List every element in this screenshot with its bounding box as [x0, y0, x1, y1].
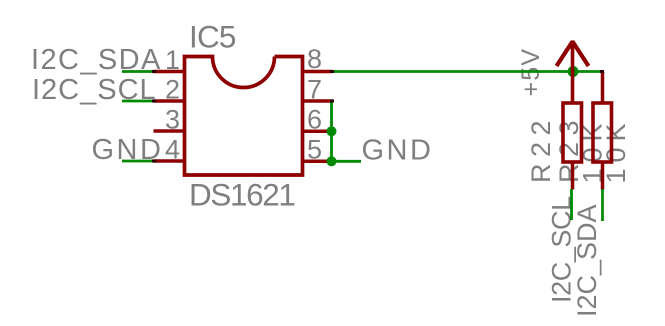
wire vertical pin7-pin6-pin5 [330, 101, 333, 161]
svg-text:R22: R22 [526, 114, 556, 183]
junction at pin 6 [327, 126, 337, 136]
label +5V (rotated) [517, 48, 545, 97]
wire GND from pin 5 [332, 160, 362, 163]
pin 5 stub [301, 160, 333, 164]
pin connection point pin 8 [330, 70, 334, 73]
lead R22 bottom [571, 164, 575, 190]
svg-text:GND: GND [362, 135, 434, 167]
lead R23 bottom [601, 164, 605, 190]
wire I2C_SDA at R23 bottom [601, 189, 604, 221]
net label I2C_SCL at R22 bottom (rotated) [547, 196, 577, 303]
lead R23 top [601, 72, 605, 102]
pin 7 stub [301, 99, 333, 103]
value 10K of R23 (rotated) [601, 117, 631, 183]
net label GND (pin 5, right) [362, 135, 434, 167]
net label I2C_SDA (pin 1) [31, 44, 162, 76]
wire GND to pin 4 [122, 160, 154, 163]
pin number 3 [165, 105, 180, 135]
pin 2 stub [154, 99, 187, 103]
svg-text:I2C_SDA: I2C_SDA [572, 204, 602, 317]
pin 4 stub [154, 159, 187, 163]
svg-text:8: 8 [307, 44, 322, 74]
label R23 (rotated) [554, 114, 584, 183]
pin 8 stub [301, 70, 333, 74]
pin 1 stub [154, 70, 187, 74]
pin number 2 [165, 75, 180, 105]
pin number 7 [307, 75, 322, 105]
wire I2C_SDA to pin 1 [122, 70, 154, 73]
wire I2C_SCL to pin 2 [122, 100, 154, 103]
IC IC5 DS1621 body outline with pin-1 notch [185, 57, 303, 176]
net label I2C_SDA at R23 bottom (rotated) [572, 204, 602, 317]
value 10K of R22 (rotated) [578, 117, 608, 183]
svg-text:R23: R23 [554, 114, 584, 183]
svg-text:10K: 10K [601, 117, 631, 183]
junction at pin 5 [327, 156, 337, 166]
pin connection point pin 2 [152, 100, 156, 103]
pin connection point pin 1 [152, 70, 156, 73]
pin number 1 [165, 45, 180, 75]
pin number 4 [165, 135, 180, 165]
net label I2C_SCL (pin 2) [32, 74, 157, 106]
resistor R22 body [563, 103, 582, 162]
label R22 (rotated) [526, 114, 556, 183]
pin number 8 [307, 44, 322, 74]
svg-text:IC5: IC5 [189, 19, 236, 55]
pin number 5 [307, 135, 322, 165]
pin 3 stub [154, 129, 187, 133]
label IC5 [189, 19, 236, 55]
wire +5V net from pin 8 to R23 top [332, 70, 603, 73]
resistor R23 body [593, 103, 612, 162]
pin 6 stub [301, 130, 333, 134]
value DS1621 [189, 177, 294, 213]
pin connection point pin 7 corner [330, 100, 334, 103]
power symbol +5V arrow [557, 41, 589, 102]
junction +5V node [568, 66, 579, 77]
wire corner at R23 top [600, 70, 604, 73]
svg-text:DS1621: DS1621 [189, 177, 294, 213]
wire I2C_SCL at R22 bottom [570, 189, 573, 220]
pin number 6 [307, 105, 322, 135]
pin connection point pin 4 [152, 160, 156, 163]
net label GND (pin 4, left) [92, 134, 164, 166]
